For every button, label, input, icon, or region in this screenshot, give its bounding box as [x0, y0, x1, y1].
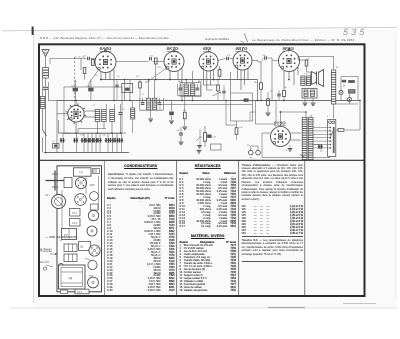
- wire: [250, 111, 256, 113]
- capacitor C13: [88, 88, 93, 92]
- svg-text:C17: C17: [72, 211, 77, 215]
- potentiometer knob: [58, 263, 63, 268]
- resistor R7: [267, 99, 270, 106]
- handwritten sheet number 535: [343, 28, 368, 37]
- capacitor C10: [244, 98, 249, 101]
- coil L1 antenna coupling: [43, 68, 49, 79]
- wire arrow pot: [196, 137, 200, 141]
- right text column: [242, 0, 304, 339]
- resistor R16: [342, 80, 346, 83]
- svg-text:C14: C14: [77, 290, 82, 294]
- svg-text:C13: C13: [72, 221, 77, 225]
- box tone filter: [302, 89, 317, 99]
- wire: [204, 84, 220, 86]
- resistor R10 plate stopper: [305, 60, 308, 66]
- coil L6 excitation field: [331, 70, 335, 104]
- bloc accord: [79, 242, 91, 251]
- svg-text:5Y3: 5Y3: [89, 275, 94, 278]
- capacitor C21 filter: [318, 144, 323, 148]
- MF boxes: [70, 209, 81, 217]
- wire: [155, 65, 157, 80]
- wire: [280, 112, 282, 127]
- wire: [75, 101, 77, 106]
- wire: [333, 62, 335, 70]
- tuning gang CV: [62, 229, 77, 240]
- CONDENSATEURS column: [107, 0, 175, 339]
- RESISTANCES column: [180, 0, 237, 339]
- socket V5: [75, 177, 86, 188]
- switch S1 secteur: [296, 157, 330, 159]
- wire grid stub: [105, 49, 107, 52]
- wire: [341, 76, 358, 78]
- resistor R13: [338, 129, 344, 132]
- wire: [305, 112, 307, 119]
- transformer MF3: [184, 84, 188, 96]
- svg-text:T.S.: T.S.: [304, 74, 308, 76]
- wire: [112, 143, 114, 153]
- wire: [178, 95, 201, 97]
- trimmer CT7: [105, 138, 110, 142]
- dial drum: [52, 195, 66, 209]
- wire: [271, 60, 273, 101]
- resistor R8: [235, 128, 238, 135]
- transformer MF1 block: [122, 83, 133, 92]
- wire chassis bus right: [168, 100, 360, 102]
- wire: [250, 146, 252, 150]
- arrow vers HP: [46, 265, 53, 267]
- switch S2 cadre/antenne: [43, 130, 47, 136]
- coil L2 cadre: [40, 97, 45, 109]
- tube V6 radial electrode stubs: [84, 114, 86, 117]
- capacitor C22 TC: [53, 144, 60, 149]
- divider: [39, 159, 365, 161]
- trimmer CT1: [73, 138, 78, 142]
- wire: [105, 104, 107, 110]
- top cap circles: [104, 50, 106, 52]
- trimmer CT2: [81, 138, 86, 142]
- capacitor C17: [73, 88, 78, 92]
- transformer T2 power: [302, 118, 307, 160]
- wire: [76, 143, 78, 153]
- wire: [171, 101, 173, 112]
- wire: [310, 72, 312, 76]
- selector contacts: [329, 127, 331, 129]
- trimmer CT3: [85, 138, 90, 142]
- wire: [184, 95, 186, 112]
- trimmer CT10: [118, 138, 123, 142]
- wire grid stub: [242, 48, 244, 51]
- wire: [99, 143, 101, 153]
- antenna A: [42, 50, 49, 57]
- transformer T1 output: [301, 76, 305, 86]
- capacitor C23: [222, 91, 225, 93]
- svg-text:AV: AV: [44, 193, 49, 197]
- connector strip: [93, 169, 100, 174]
- svg-text:TS: TS: [79, 171, 83, 175]
- wire: [140, 109, 164, 111]
- wire: [340, 95, 342, 101]
- resistor R6: [260, 83, 263, 90]
- capacitor C8: [179, 88, 183, 90]
- wire HT B+ bus: [100, 79, 258, 81]
- wire: [283, 71, 285, 90]
- coil L3 oscillator grid: [95, 110, 100, 122]
- capacitor C11 coupling: [227, 57, 229, 60]
- wire cathode drop: [105, 73, 107, 80]
- fuse F1: [329, 121, 332, 124]
- chassis annotations: [44, 236, 78, 242]
- wire: [237, 69, 239, 80]
- wire: [121, 143, 123, 153]
- coil L5 padder coil: [110, 110, 115, 122]
- capacitor C2 grid: [88, 57, 90, 60]
- box filter small: [211, 144, 222, 150]
- wire: [42, 109, 44, 131]
- tuning gang CV dashed link: [74, 57, 76, 112]
- capacitor C4 coupling: [150, 57, 152, 60]
- wire: [80, 59, 82, 71]
- junction dots: [113, 100, 115, 102]
- wire: [336, 129, 338, 131]
- wire: [132, 101, 134, 109]
- wires inside chassis: [61, 190, 63, 228]
- transfo sortie box: [74, 168, 92, 176]
- trimmer CT9: [114, 138, 119, 142]
- wire grid stub: [173, 49, 175, 52]
- MF can 1: [90, 192, 99, 201]
- outer frame: [39, 44, 365, 296]
- capacitor C9: [196, 88, 200, 90]
- box MF can outline: [180, 83, 201, 97]
- selector inner bar: [333, 127, 335, 153]
- wire: [209, 71, 211, 85]
- socket V6: [88, 260, 97, 269]
- wire: [207, 89, 213, 91]
- trimmer CT5: [93, 138, 98, 142]
- wire: [83, 143, 85, 153]
- capacitor C12 coupling: [265, 56, 267, 59]
- wire: [45, 78, 47, 87]
- lamp LP1: [339, 90, 343, 94]
- wire: [75, 122, 77, 133]
- wire: [304, 98, 306, 102]
- capacitor C20: [179, 133, 183, 135]
- wire top link: [298, 56, 334, 58]
- wire link L1-L2 top: [42, 78, 44, 97]
- svg-text:6F6: 6F6: [90, 183, 95, 187]
- wire: [262, 132, 270, 134]
- resistor R3: [155, 58, 158, 64]
- tube V6 oscillator: [68, 106, 84, 122]
- capacitor C6: [158, 103, 162, 105]
- capacitor C24: [115, 85, 118, 87]
- wire: [84, 110, 95, 112]
- wire arrow: [213, 92, 222, 96]
- wire: [150, 110, 152, 118]
- wire heater stub: [261, 157, 263, 159]
- coil L8: [131, 108, 135, 119]
- wire: [84, 74, 86, 80]
- handwritten check mark: [244, 34, 247, 43]
- capacitor C14: [60, 138, 65, 142]
- wire: [291, 132, 301, 134]
- speaker HP: [312, 70, 324, 87]
- wire: [91, 143, 93, 153]
- socket V2: [87, 226, 97, 236]
- wire AVC line: [160, 104, 252, 106]
- wire chassis bus left: [57, 100, 168, 102]
- wire: [116, 143, 118, 153]
- wire: [124, 80, 126, 84]
- capacitor C18: [125, 88, 130, 91]
- svg-text:T.A.: T.A.: [309, 115, 313, 118]
- capacitor C5: [141, 103, 145, 105]
- capacitor C1 series antenna: [43, 87, 48, 89]
- socket V3: [88, 210, 98, 220]
- resistor R1 grid leak: [92, 60, 95, 66]
- box bloc accord oscillator enclosure: [64, 87, 122, 134]
- ground G1: [197, 151, 202, 154]
- resistor R11: [348, 80, 355, 83]
- wire trimmer top rail: [59, 132, 127, 134]
- wire: [359, 101, 361, 131]
- socket PU phono jacks: [249, 150, 254, 155]
- wire: [74, 91, 76, 100]
- capacitor C16: [277, 94, 281, 96]
- wire: [57, 113, 68, 115]
- wire antenna lead: [45, 57, 47, 68]
- wire: [97, 122, 99, 134]
- chassis outline vue de dessous: [57, 166, 102, 292]
- lamp LP2: [347, 97, 351, 101]
- wire: [177, 71, 179, 80]
- wire selector arm: [330, 131, 333, 137]
- wire screen drop: [113, 70, 115, 101]
- wire: [313, 144, 318, 146]
- wire plate drop: [100, 72, 102, 80]
- wire: [333, 104, 335, 119]
- wire: [334, 103, 358, 105]
- wire: [261, 152, 263, 158]
- box detector filter: [256, 101, 277, 125]
- arrow au reseau: [50, 253, 57, 255]
- header imprint line: [40, 37, 169, 40]
- socket V7: [88, 277, 99, 288]
- wire: [107, 143, 109, 153]
- resistor R15: [139, 82, 142, 88]
- trimmer CT4: [89, 138, 94, 142]
- trimmer CT8: [109, 138, 114, 142]
- resistor R14: [217, 85, 220, 91]
- potentiometer P1 volume: [204, 133, 207, 142]
- wire: [78, 128, 106, 130]
- wire detector loop: [230, 72, 232, 121]
- transformer MF2: [147, 98, 151, 110]
- coil L7: [349, 90, 356, 94]
- wire: [203, 71, 205, 86]
- wire diag tube1 pins: [89, 71, 98, 84]
- resistor R4 cathode: [183, 112, 186, 119]
- wire: [252, 60, 258, 62]
- frame antenna cross: [46, 180, 65, 182]
- column rules: [103, 160, 105, 295]
- voltage selector box: [328, 120, 336, 157]
- socket V1: [89, 245, 100, 256]
- transfo alim TA box: [59, 265, 86, 289]
- wire: [192, 96, 194, 101]
- wire: [272, 60, 279, 61]
- wire bus left riser: [48, 82, 50, 101]
- wire: [343, 85, 345, 88]
- elco box: [64, 178, 72, 188]
- capacitor C7 cathode: [170, 113, 174, 115]
- bottom strip: [75, 289, 89, 294]
- wire: [87, 143, 89, 153]
- trimmer CT6: [97, 138, 102, 142]
- wire: [95, 143, 97, 153]
- wire: [50, 58, 87, 60]
- wire grid stub: [288, 48, 290, 51]
- coil L4 oscillator plate: [102, 110, 107, 122]
- ground G2: [288, 149, 293, 152]
- wire: [225, 101, 227, 126]
- resistor R9 cathode: [283, 91, 286, 97]
- wire ground bus: [44, 152, 129, 154]
- svg-text:BL: BL: [81, 245, 85, 249]
- wire: [165, 64, 167, 70]
- socket V4: [75, 194, 87, 206]
- wire: [257, 80, 259, 101]
- wire osc loop: [58, 120, 60, 133]
- CV trimmer strip: [64, 244, 77, 252]
- wire diag pin: [147, 68, 167, 82]
- wire grid stub: [208, 49, 210, 52]
- wire: [45, 90, 47, 153]
- wire: [293, 71, 295, 86]
- wire mains down: [329, 157, 331, 158]
- resistor R2 injection: [83, 68, 86, 74]
- resistor R5: [218, 70, 221, 77]
- wire: [116, 61, 149, 63]
- capacitor C3 padder: [119, 113, 123, 115]
